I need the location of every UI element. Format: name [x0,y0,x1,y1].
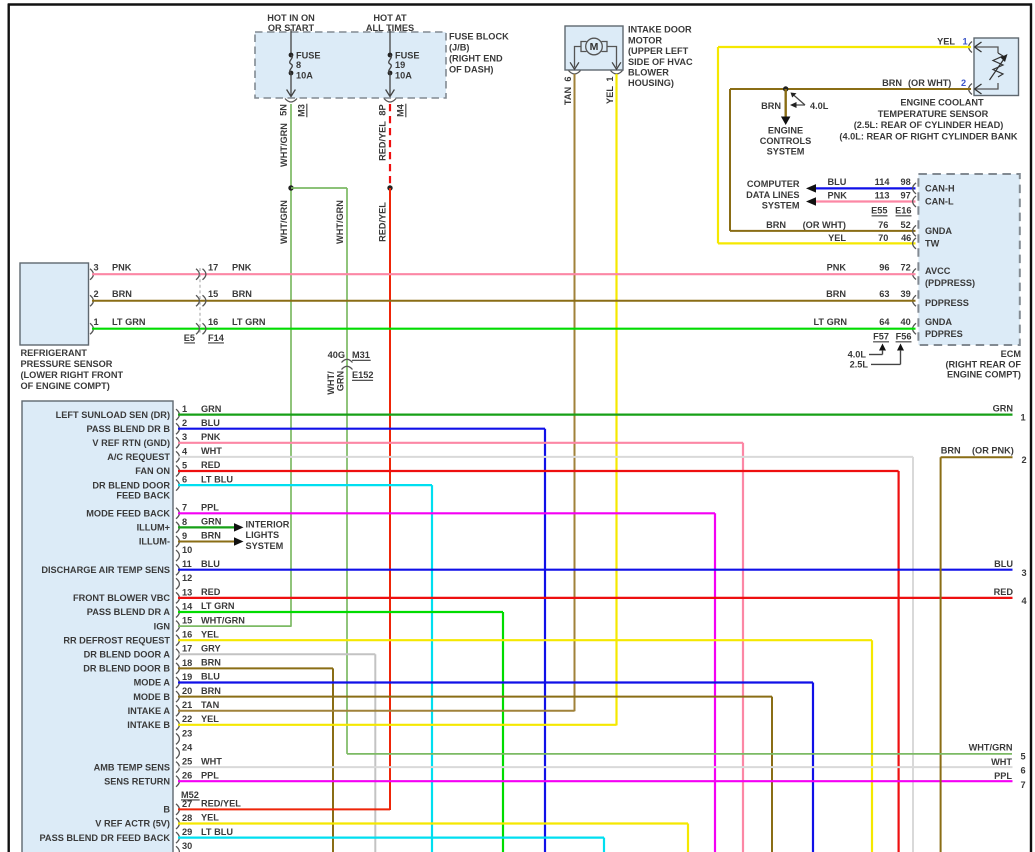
svg-text:GRN: GRN [201,517,222,527]
svg-text:5N: 5N [279,104,289,116]
svg-text:113: 113 [875,191,890,201]
svg-text:M31: M31 [352,350,370,360]
svg-text:GNDA: GNDA [925,226,952,236]
svg-text:76: 76 [878,220,888,230]
svg-text:4: 4 [182,446,188,456]
svg-text:M52: M52 [181,790,199,800]
svg-text:3: 3 [182,432,187,442]
svg-text:2: 2 [961,78,966,88]
svg-text:97: 97 [900,191,910,201]
svg-text:BRN: BRN [112,289,132,299]
svg-text:72: 72 [900,263,910,273]
svg-text:GRY: GRY [201,644,221,654]
svg-text:1: 1 [605,76,615,81]
svg-text:SIDE OF HVAC: SIDE OF HVAC [628,57,693,67]
svg-text:4: 4 [1022,596,1028,606]
svg-text:26: 26 [182,771,192,781]
svg-text:96: 96 [879,263,889,273]
svg-text:GRN: GRN [201,404,222,414]
svg-text:114: 114 [875,177,891,187]
svg-text:WHT/GRN: WHT/GRN [335,200,345,244]
svg-text:PDPRES: PDPRES [925,329,963,339]
svg-text:(OR PNK): (OR PNK) [972,446,1014,456]
svg-text:WHT: WHT [201,756,222,766]
svg-text:(UPPER LEFT: (UPPER LEFT [628,46,689,56]
svg-text:TAN: TAN [201,700,220,710]
svg-text:5: 5 [1021,752,1026,762]
svg-text:ENGINE: ENGINE [768,126,803,136]
svg-text:25: 25 [182,757,192,767]
svg-text:PPL: PPL [201,503,219,513]
svg-text:12: 12 [182,573,192,583]
svg-text:46: 46 [901,233,911,243]
svg-text:CAN-H: CAN-H [925,184,955,194]
svg-text:INTAKE B: INTAKE B [127,720,170,730]
svg-text:PNK: PNK [828,191,848,201]
svg-text:LEFT SUNLOAD SEN (DR): LEFT SUNLOAD SEN (DR) [56,410,170,420]
svg-text:BLOWER: BLOWER [628,68,669,78]
svg-text:BRN: BRN [201,658,221,668]
svg-text:E55: E55 [871,206,887,216]
svg-text:19: 19 [395,60,405,70]
svg-text:SYSTEM: SYSTEM [762,201,800,211]
svg-text:21: 21 [182,700,192,710]
svg-text:V REF RTN (GND): V REF RTN (GND) [92,438,170,448]
svg-text:DISCHARGE AIR TEMP SENS: DISCHARGE AIR TEMP SENS [41,565,170,575]
svg-text:2: 2 [1022,455,1027,465]
svg-text:40: 40 [900,317,910,327]
svg-text:LT BLU: LT BLU [201,827,233,837]
svg-text:LIGHTS: LIGHTS [246,530,280,540]
svg-text:MODE B: MODE B [133,692,170,702]
svg-text:AVCC: AVCC [925,266,951,276]
svg-text:F14: F14 [208,333,225,343]
svg-text:18: 18 [182,658,192,668]
svg-text:1: 1 [963,37,968,47]
svg-text:OF DASH): OF DASH) [449,65,493,75]
svg-text:PASS BLEND DR FEED BACK: PASS BLEND DR FEED BACK [39,833,170,843]
svg-text:HOUSING): HOUSING) [628,78,674,88]
svg-text:LT GRN: LT GRN [813,317,847,327]
svg-text:INTERIOR: INTERIOR [246,520,290,530]
svg-text:2: 2 [94,289,99,299]
svg-text:39: 39 [900,289,910,299]
svg-text:7: 7 [182,503,187,513]
svg-text:REFRIGERANT: REFRIGERANT [21,348,88,358]
svg-text:OF ENGINE COMPT): OF ENGINE COMPT) [21,381,110,391]
svg-text:RED/YEL: RED/YEL [378,202,388,242]
svg-text:2.5L: 2.5L [850,360,869,370]
svg-text:V REF ACTR (5V): V REF ACTR (5V) [95,819,170,829]
svg-text:DATA LINES: DATA LINES [746,190,799,200]
svg-text:1: 1 [94,317,99,327]
svg-text:(4.0L: REAR OF RIGHT CYLINDER: (4.0L: REAR OF RIGHT CYLINDER BANK [839,131,1018,141]
svg-text:BRN: BRN [761,101,781,111]
svg-text:17: 17 [208,262,218,272]
svg-text:PNK: PNK [201,432,221,442]
svg-text:3: 3 [1022,568,1027,578]
svg-text:MOTOR: MOTOR [628,35,662,45]
svg-text:19: 19 [182,672,192,682]
svg-text:B: B [163,805,170,815]
svg-text:WHT: WHT [201,446,222,456]
svg-text:FAN ON: FAN ON [135,466,170,476]
svg-text:BLU: BLU [201,672,220,682]
svg-text:PASS BLEND DR A: PASS BLEND DR A [87,607,171,617]
svg-text:GNDA: GNDA [925,317,952,327]
svg-text:CONTROLS: CONTROLS [760,136,812,146]
svg-text:HOT AT: HOT AT [373,13,407,23]
svg-text:PDPRESS: PDPRESS [925,298,969,308]
svg-text:FUSE BLOCK: FUSE BLOCK [449,32,509,42]
svg-text:(J/B): (J/B) [449,43,469,53]
svg-text:WHT/: WHT/ [326,371,336,395]
svg-text:BRN: BRN [201,686,221,696]
svg-text:6: 6 [182,475,187,485]
svg-text:WHT: WHT [991,757,1012,767]
svg-text:64: 64 [879,317,890,327]
svg-text:FUSE: FUSE [395,51,420,61]
svg-text:RED: RED [994,587,1014,597]
svg-text:DR BLEND DOOR A: DR BLEND DOOR A [84,650,171,660]
svg-text:INTAKE DOOR: INTAKE DOOR [628,25,692,35]
svg-text:8: 8 [182,517,187,527]
svg-text:YEL: YEL [201,629,219,639]
svg-text:FUSE: FUSE [296,51,321,61]
svg-text:(PDPRESS): (PDPRESS) [925,278,975,288]
svg-text:(RIGHT REAR OF: (RIGHT REAR OF [945,360,1021,370]
svg-text:BRN: BRN [941,446,961,456]
svg-text:(RIGHT END: (RIGHT END [449,54,503,64]
svg-text:LT GRN: LT GRN [232,317,266,327]
svg-text:5: 5 [182,460,187,470]
svg-text:14: 14 [182,601,193,611]
svg-text:24: 24 [182,742,193,752]
svg-text:15: 15 [208,289,218,299]
svg-text:E5: E5 [184,333,195,343]
svg-text:23: 23 [182,728,192,738]
svg-text:SENS RETURN: SENS RETURN [104,776,170,786]
svg-text:PPL: PPL [201,770,219,780]
svg-text:LT GRN: LT GRN [201,601,235,611]
svg-text:E16: E16 [895,206,911,216]
svg-text:F56: F56 [896,332,912,342]
svg-text:98: 98 [900,177,910,187]
svg-text:(2.5L: REAR OF CYLINDER HEAD): (2.5L: REAR OF CYLINDER HEAD) [854,120,1004,130]
svg-text:FEED BACK: FEED BACK [116,491,170,501]
svg-text:ENGINE COMPT): ENGINE COMPT) [947,370,1021,380]
svg-text:HOT IN ON: HOT IN ON [267,13,315,23]
svg-text:ILLUM+: ILLUM+ [137,523,170,533]
svg-text:BLU: BLU [201,418,220,428]
svg-text:PNK: PNK [232,262,252,272]
svg-text:RR DEFROST REQUEST: RR DEFROST REQUEST [63,635,170,645]
svg-text:DR BLEND DOOR: DR BLEND DOOR [92,480,170,490]
svg-text:BRN: BRN [201,531,221,541]
svg-text:40G: 40G [328,350,345,360]
svg-text:DR BLEND DOOR B: DR BLEND DOOR B [83,664,170,674]
svg-text:3: 3 [94,262,99,272]
svg-text:M3: M3 [297,104,307,117]
svg-text:15: 15 [182,616,192,626]
svg-text:RED: RED [201,460,221,470]
svg-text:4.0L: 4.0L [810,101,829,111]
svg-text:WHT/GRN: WHT/GRN [201,615,245,625]
svg-text:BRN: BRN [232,289,252,299]
svg-text:COMPUTER: COMPUTER [747,179,800,189]
svg-text:10A: 10A [395,71,412,81]
svg-text:MODE A: MODE A [134,678,171,688]
svg-text:E152: E152 [352,370,373,380]
svg-text:YEL: YEL [937,37,955,47]
svg-text:TAN: TAN [563,87,573,106]
svg-text:M4: M4 [396,103,406,117]
svg-text:GRN: GRN [336,370,346,391]
svg-text:BLU: BLU [828,177,847,187]
svg-text:PPL: PPL [994,771,1012,781]
svg-text:PNK: PNK [827,263,847,273]
svg-text:8: 8 [296,60,301,70]
svg-text:SYSTEM: SYSTEM [767,147,805,157]
svg-text:2: 2 [182,418,187,428]
svg-text:29: 29 [182,827,192,837]
svg-text:PNK: PNK [112,262,132,272]
svg-text:BRN: BRN [766,220,786,230]
svg-text:PRESSURE SENSOR: PRESSURE SENSOR [21,359,113,369]
svg-text:7: 7 [1021,780,1026,790]
svg-text:WHT/GRN: WHT/GRN [969,743,1013,753]
svg-text:WHT/GRN: WHT/GRN [279,200,289,244]
svg-text:BLU: BLU [994,559,1013,569]
svg-text:PASS BLEND DR B: PASS BLEND DR B [86,424,170,434]
svg-text:WHT/GRN: WHT/GRN [279,123,289,167]
svg-text:LT GRN: LT GRN [112,317,146,327]
svg-text:ECM: ECM [1001,349,1022,359]
svg-text:BRN: BRN [882,78,902,88]
svg-text:13: 13 [182,587,192,597]
svg-text:22: 22 [182,714,192,724]
svg-text:RED: RED [201,587,221,597]
svg-text:63: 63 [879,289,889,299]
svg-text:YEL: YEL [201,813,219,823]
svg-text:10: 10 [182,545,192,555]
svg-text:6: 6 [563,76,573,81]
svg-text:MODE FEED BACK: MODE FEED BACK [86,509,170,519]
svg-text:17: 17 [182,644,192,654]
svg-text:1: 1 [1021,412,1026,422]
svg-text:16: 16 [208,317,218,327]
svg-text:GRN: GRN [993,403,1014,413]
svg-text:FRONT BLOWER VBC: FRONT BLOWER VBC [73,593,170,603]
svg-text:9: 9 [182,531,187,541]
svg-text:8P: 8P [378,104,388,115]
svg-text:(OR WHT): (OR WHT) [803,220,846,230]
svg-text:BRN: BRN [826,289,846,299]
svg-text:TW: TW [925,239,940,249]
svg-text:ILLUM-: ILLUM- [139,537,170,547]
svg-text:M: M [590,41,599,53]
svg-text:(OR WHT): (OR WHT) [908,78,951,88]
svg-text:TEMPERATURE SENSOR: TEMPERATURE SENSOR [878,109,989,119]
svg-text:10A: 10A [296,71,313,81]
svg-text:YEL: YEL [605,86,615,104]
svg-text:YEL: YEL [828,233,846,243]
svg-text:(LOWER RIGHT FRONT: (LOWER RIGHT FRONT [21,370,124,380]
svg-text:4.0L: 4.0L [848,350,867,360]
svg-text:11: 11 [182,559,192,569]
svg-text:20: 20 [182,686,192,696]
svg-text:6: 6 [1021,766,1026,776]
svg-text:F57: F57 [873,332,889,342]
svg-text:LT BLU: LT BLU [201,474,233,484]
svg-text:SYSTEM: SYSTEM [246,541,284,551]
svg-text:A/C REQUEST: A/C REQUEST [107,452,170,462]
svg-text:RED/YEL: RED/YEL [201,799,241,809]
svg-text:ENGINE COOLANT: ENGINE COOLANT [900,98,984,108]
svg-text:70: 70 [878,233,888,243]
svg-text:YEL: YEL [201,714,219,724]
svg-text:28: 28 [182,813,192,823]
svg-text:CAN-L: CAN-L [925,197,954,207]
svg-text:BLU: BLU [201,559,220,569]
svg-text:IGN: IGN [154,621,171,631]
svg-text:RED/YEL: RED/YEL [378,121,388,161]
svg-text:16: 16 [182,630,192,640]
svg-text:52: 52 [900,220,910,230]
svg-text:30: 30 [182,841,192,851]
svg-text:INTAKE A: INTAKE A [128,706,171,716]
svg-text:AMB TEMP SENS: AMB TEMP SENS [94,762,170,772]
svg-text:1: 1 [182,404,187,414]
